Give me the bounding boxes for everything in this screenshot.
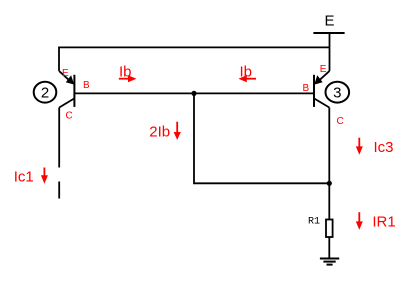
svg-text:2: 2 — [41, 85, 49, 102]
wire collector Q2 (broken) — [58, 108, 60, 199]
svg-text:Ic3: Ic3 — [374, 139, 394, 156]
ground — [320, 259, 339, 265]
svg-text:3: 3 — [333, 85, 341, 102]
resistor R1 — [308, 216, 333, 258]
annotation Ic3 down-arrow — [356, 138, 394, 156]
annotation Ib right-arrow — [119, 64, 137, 83]
annotation Ib left-arrow — [238, 64, 256, 83]
wire base — [74, 92, 314, 94]
wire 2Ib branch — [194, 93, 329, 183]
svg-text:Ic1: Ic1 — [14, 168, 34, 185]
transistor Q3 — [314, 47, 330, 107]
annotation 2Ib down-arrow — [149, 122, 181, 141]
node base junction — [191, 91, 196, 96]
svg-text:C: C — [337, 116, 344, 127]
svg-text:C: C — [66, 111, 73, 122]
annotation Ic1 down-arrow — [14, 168, 48, 186]
wire collector Q3 — [328, 108, 330, 220]
svg-text:E: E — [320, 64, 327, 75]
svg-text:R1: R1 — [308, 216, 320, 227]
supply terminal E — [313, 13, 344, 48]
label circle 2 — [34, 82, 57, 103]
svg-text:E: E — [62, 68, 69, 79]
annotation IR1 down-arrow — [356, 212, 396, 230]
svg-text:E: E — [324, 13, 334, 30]
node collector junction — [327, 181, 332, 186]
transistor Q2 — [59, 71, 74, 108]
wire top rail — [59, 47, 330, 71]
svg-text:IR1: IR1 — [372, 213, 395, 230]
svg-text:2Ib: 2Ib — [149, 123, 170, 140]
label circle 3 — [326, 82, 350, 103]
svg-text:B: B — [303, 83, 310, 94]
svg-text:B: B — [83, 80, 90, 91]
